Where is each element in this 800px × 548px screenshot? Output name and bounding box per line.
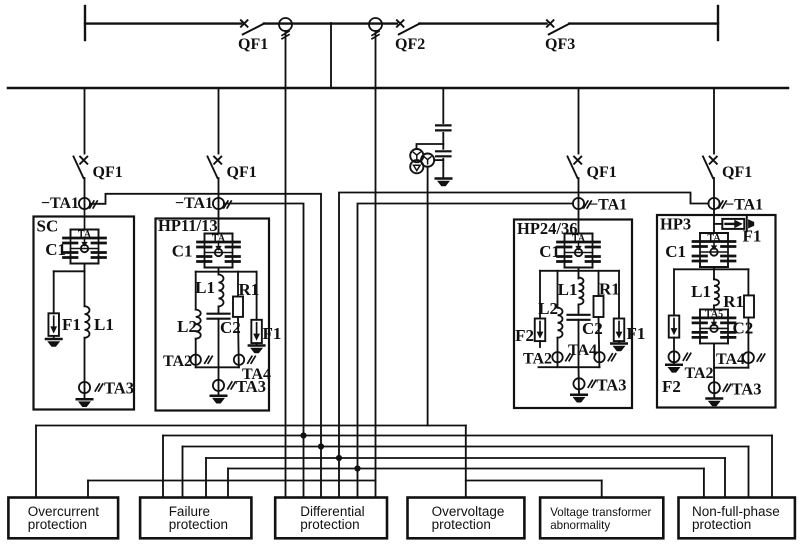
svg-text:protection: protection xyxy=(692,517,751,532)
svg-text:−TA1: −TA1 xyxy=(175,195,213,212)
svg-text:HP11/13: HP11/13 xyxy=(158,216,218,235)
svg-text:−TA1: −TA1 xyxy=(725,197,763,214)
svg-text:TA3: TA3 xyxy=(236,377,266,396)
svg-text:QF3: QF3 xyxy=(545,36,575,53)
svg-text:protection: protection xyxy=(300,517,359,532)
svg-text:F1: F1 xyxy=(627,324,646,343)
svg-text:F1: F1 xyxy=(263,324,282,343)
svg-text:L1: L1 xyxy=(558,280,578,299)
svg-text:QF1: QF1 xyxy=(227,164,257,181)
svg-text:QF1: QF1 xyxy=(587,164,617,181)
svg-text:TA3: TA3 xyxy=(732,380,762,399)
svg-text:−TA1: −TA1 xyxy=(41,195,79,212)
svg-text:L2: L2 xyxy=(177,317,197,336)
svg-text:HP3: HP3 xyxy=(660,215,691,234)
svg-text:F2: F2 xyxy=(515,326,534,345)
svg-text:F1: F1 xyxy=(743,227,762,246)
svg-text:QF1: QF1 xyxy=(93,164,123,181)
svg-text:protection: protection xyxy=(28,517,87,532)
svg-text:L1: L1 xyxy=(94,315,114,334)
svg-text:TA2: TA2 xyxy=(685,365,714,382)
svg-text:TA3: TA3 xyxy=(597,376,627,395)
svg-text:TA4: TA4 xyxy=(716,351,745,368)
svg-text:TA2: TA2 xyxy=(163,353,192,370)
svg-text:R1: R1 xyxy=(599,280,620,299)
svg-text:L1: L1 xyxy=(195,278,215,297)
svg-text:protection: protection xyxy=(432,517,491,532)
svg-text:Voltage transformer: Voltage transformer xyxy=(550,506,651,519)
svg-text:QF2: QF2 xyxy=(395,36,425,53)
svg-text:L2: L2 xyxy=(538,299,558,318)
svg-text:C1: C1 xyxy=(539,242,560,261)
svg-text:abnormality: abnormality xyxy=(550,519,610,532)
svg-text:C2: C2 xyxy=(733,319,754,338)
svg-text:QF1: QF1 xyxy=(238,36,268,53)
svg-text:−TA1: −TA1 xyxy=(589,197,627,214)
svg-text:C1: C1 xyxy=(665,242,686,261)
svg-text:protection: protection xyxy=(169,517,228,532)
svg-text:R1: R1 xyxy=(723,292,744,311)
svg-text:L1: L1 xyxy=(691,282,711,301)
svg-text:TA4: TA4 xyxy=(568,342,597,359)
svg-text:SC: SC xyxy=(37,217,59,236)
svg-text:TA2: TA2 xyxy=(523,351,552,368)
svg-text:F2: F2 xyxy=(662,377,681,396)
svg-text:TA3: TA3 xyxy=(104,379,134,398)
svg-text:QF1: QF1 xyxy=(722,164,752,181)
svg-text:C1: C1 xyxy=(45,240,66,259)
svg-text:F1: F1 xyxy=(62,315,81,334)
svg-text:HP24/36: HP24/36 xyxy=(517,219,578,238)
svg-text:C1: C1 xyxy=(172,242,193,261)
